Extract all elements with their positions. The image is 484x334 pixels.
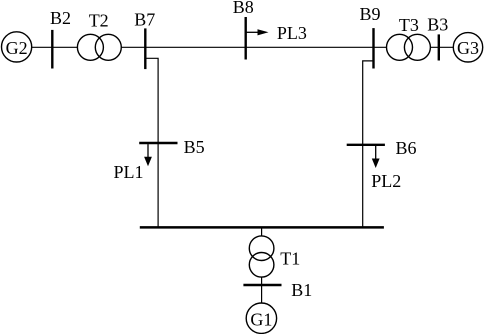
svg-text:B9: B9 xyxy=(360,4,381,24)
svg-text:T3: T3 xyxy=(399,15,419,35)
bus B2 xyxy=(51,30,53,69)
wire T2 to T3 (main top line) xyxy=(121,46,386,48)
svg-text:T2: T2 xyxy=(89,10,109,30)
load PL3 arrow xyxy=(246,29,269,35)
bus B7 xyxy=(144,28,146,69)
generator G3 xyxy=(453,33,482,62)
svg-text:PL2: PL2 xyxy=(371,171,401,191)
generator G1 xyxy=(246,303,276,333)
bus B9 xyxy=(372,28,374,68)
svg-text:B8: B8 xyxy=(233,0,254,17)
svg-text:PL3: PL3 xyxy=(277,23,307,43)
svg-text:B1: B1 xyxy=(291,280,312,300)
svg-text:B3: B3 xyxy=(427,15,448,35)
wire G2 to T2 xyxy=(32,46,78,48)
svg-text:G3: G3 xyxy=(457,38,479,58)
transformer T2 xyxy=(77,34,121,60)
bus B8 xyxy=(244,17,246,60)
wire B7 to left feeder drop xyxy=(145,58,158,227)
generator G2 xyxy=(2,32,32,62)
load PL2 arrow xyxy=(372,146,380,168)
transformer T3 xyxy=(387,34,431,60)
svg-text:B7: B7 xyxy=(134,10,155,30)
wire B9 to right feeder drop xyxy=(363,61,374,228)
svg-text:B2: B2 xyxy=(50,8,71,28)
svg-text:G2: G2 xyxy=(6,38,28,58)
bus B6 xyxy=(347,144,385,146)
load PL1 arrow xyxy=(144,144,152,166)
wire T1 to G1 xyxy=(261,277,263,303)
svg-text:B6: B6 xyxy=(396,138,417,158)
svg-text:G1: G1 xyxy=(250,309,272,329)
transformer T1 xyxy=(249,236,274,277)
bus B5 xyxy=(139,142,177,144)
wire T3 to B3 to G3 xyxy=(430,46,453,48)
wire bottom bus to T1 xyxy=(261,227,263,236)
bus B3 xyxy=(438,34,440,60)
svg-text:B5: B5 xyxy=(184,137,205,157)
svg-text:T1: T1 xyxy=(280,248,300,268)
bottom bus bar xyxy=(140,226,384,229)
bus B1 xyxy=(243,284,281,286)
svg-text:PL1: PL1 xyxy=(114,162,144,182)
